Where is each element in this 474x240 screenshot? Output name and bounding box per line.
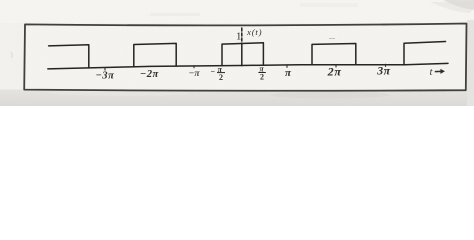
- faint mark left margin: [11, 52, 12, 58]
- top strip lighter: [0, 0, 474, 23]
- x(t) axis (vertical, dashed above pulse top): [241, 28, 243, 44]
- pulse 2 (centered -2pi): [134, 43, 176, 66]
- pulse 3 (centered 0): [222, 43, 263, 66]
- pulse 4 (centered 2pi): [312, 44, 356, 65]
- pulse 5 (partial, right edge) rising edge at 7pi/2: [404, 42, 446, 65]
- faint smudge above pulse 4 top: [329, 37, 335, 40]
- page background: [0, 0, 474, 106]
- axis ticks: [105, 64, 386, 71]
- interior of figure box (near white): [24, 24, 466, 91]
- fraction bar -pi/2: [217, 72, 225, 74]
- fraction bar pi/2: [258, 72, 265, 74]
- arrow after t: [435, 69, 445, 74]
- figure frame box: [24, 24, 466, 91]
- right band outside frame: [467, 20, 474, 106]
- scan grain overlay: [0, 0, 474, 106]
- pulse 1 (partial, left edge) top and falling edge at -7pi/2: [49, 45, 89, 68]
- t axis: [48, 63, 448, 69]
- faint ghost marks top middle: [300, 3, 358, 7]
- bottom strip below frame: gray wash: [0, 90, 474, 107]
- smudge top-right swoosh: [443, 0, 474, 10]
